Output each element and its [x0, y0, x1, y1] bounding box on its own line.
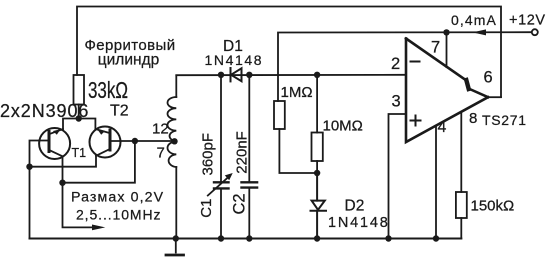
inductor L (ferrite rod coil)	[168, 76, 177, 239]
node coil bottom	[173, 235, 179, 241]
svg-text:6: 6	[484, 69, 493, 87]
current direction arrow 0,4mA	[473, 29, 487, 35]
node T2 collector / T1 base	[26, 164, 32, 170]
svg-text:150kΩ: 150kΩ	[471, 198, 515, 215]
wire bottom ground rail	[30, 238, 462, 240]
capacitor C2 220nF	[242, 75, 258, 239]
node A (1M/10M/D2)	[314, 170, 320, 176]
transistor T2	[90, 127, 121, 158]
wire T1 base to left rail	[30, 141, 49, 239]
wire pin 7 supply stub	[446, 33, 448, 68]
wire T2 base to coil tap	[110, 140, 176, 142]
wire pin 8 stub	[460, 112, 462, 192]
wire +12V supply line	[278, 32, 532, 101]
svg-text:1MΩ: 1MΩ	[281, 84, 313, 101]
wire pin 3 to ground	[389, 114, 407, 239]
svg-text:4: 4	[438, 119, 447, 136]
node T1 collector	[59, 180, 65, 186]
svg-text:D2: D2	[345, 198, 365, 215]
wire pin 4 to ground	[435, 126, 437, 239]
resistor R 150k	[456, 192, 467, 218]
wire T1 collector down	[62, 156, 64, 182]
svg-text:Размах 0,2V: Размах 0,2V	[71, 189, 164, 205]
wire 33k to emitter rail	[78, 105, 80, 119]
diode D2 1N4148	[311, 173, 327, 239]
node coil tap	[171, 138, 177, 144]
node C1 top	[218, 72, 224, 78]
resistor R 10M	[312, 133, 323, 162]
wire swing-arrow pointer	[63, 183, 93, 228]
svg-text:7: 7	[431, 39, 440, 57]
svg-text:220nF: 220nF	[234, 131, 251, 174]
node T2 base junction	[132, 138, 138, 144]
svg-text:цилиндр: цилиндр	[98, 52, 159, 69]
wire 150k bottom lead	[460, 218, 462, 239]
wire signal line (coil top to op-amp pin 2)	[176, 74, 406, 76]
terminal +12V	[532, 29, 538, 35]
resistor R 1M	[274, 101, 285, 129]
svg-text:0,4mA: 0,4mA	[451, 12, 497, 28]
svg-text:8: 8	[469, 110, 477, 127]
wire top rail (output feedback)	[77, 7, 501, 98]
node C1 bottom	[218, 235, 224, 241]
svg-text:360pF: 360pF	[200, 133, 217, 176]
svg-text:2,5...10MHz: 2,5...10MHz	[76, 206, 161, 222]
svg-text:C2: C2	[231, 193, 249, 214]
resistor R 33k	[74, 75, 85, 105]
wire line B (T1 collector to T2 base)	[63, 141, 135, 183]
node op-amp pin7 supply	[443, 29, 449, 35]
diode D1 1N4148	[231, 68, 242, 81]
wire output pin 6	[488, 96, 501, 98]
svg-text:C1: C1	[198, 199, 215, 218]
op-amp minus input mark	[411, 61, 420, 63]
transistor T1	[39, 128, 70, 159]
svg-text:3: 3	[392, 93, 401, 111]
wire emitter rail	[63, 119, 95, 130]
op-amp plus input mark	[411, 116, 421, 126]
capacitor C1 360pF (trimmer)	[208, 75, 233, 239]
svg-text:7: 7	[157, 145, 165, 162]
svg-text:10MΩ: 10MΩ	[323, 118, 363, 135]
node D2 to ground rail	[314, 235, 320, 241]
wire 1M bottom to node A	[279, 129, 317, 173]
svg-text:T2: T2	[110, 103, 129, 120]
node 10M top	[314, 72, 320, 78]
svg-text:TS271: TS271	[482, 112, 527, 128]
wire line A (T2 collector to T1 base)	[30, 156, 97, 167]
svg-text:T1: T1	[72, 146, 87, 160]
svg-text:12: 12	[152, 121, 169, 138]
svg-text:1N4148: 1N4148	[205, 52, 264, 68]
svg-text:2x2N3906: 2x2N3906	[0, 101, 89, 121]
svg-text:33kΩ: 33kΩ	[88, 77, 128, 103]
ground symbol	[166, 239, 184, 256]
node C2 top	[246, 72, 252, 78]
svg-text:1N4148: 1N4148	[328, 215, 390, 231]
op-amp U1 TS271	[406, 39, 488, 143]
node emitter junction	[76, 115, 82, 121]
svg-text:2: 2	[391, 55, 400, 73]
node pin 4 ground	[433, 235, 439, 241]
wire 10M top lead	[316, 75, 318, 133]
node pin 3 ground	[385, 235, 391, 241]
wire 10M bottom lead	[316, 161, 318, 173]
svg-text:+12V: +12V	[509, 13, 546, 29]
node C2 bottom	[246, 235, 252, 241]
